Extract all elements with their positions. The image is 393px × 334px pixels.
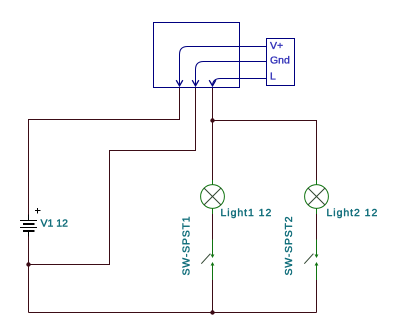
junction node L [210, 118, 214, 122]
svg-text:Light1 12: Light1 12 [221, 207, 273, 219]
connector box (V+/Gnd/L) [267, 39, 295, 86]
wire V+ (navy) [180, 47, 267, 86]
wire L (navy) [213, 79, 267, 86]
switch SW-SPST1 [201, 240, 214, 281]
wire: battery - down to bottom rail [28, 237, 30, 313]
wire: node to lamp1 [212, 121, 214, 181]
svg-text:Gnd: Gnd [270, 54, 290, 66]
svg-text:L: L [270, 71, 276, 83]
wire: lamp1 to switch1 [212, 214, 214, 240]
svg-text:SW-SPST2: SW-SPST2 [283, 216, 295, 276]
wire: switch1 to bottom rail [212, 280, 214, 313]
arrow on L wire [209, 80, 216, 86]
bottom rail wire [29, 312, 317, 314]
module box U1 [154, 23, 240, 88]
svg-text:SW-SPST1: SW-SPST1 [181, 216, 193, 276]
svg-text:V1 12: V1 12 [41, 218, 69, 230]
wire: Gnd pin down/left to battery - [29, 88, 196, 265]
svg-text:V+: V+ [270, 40, 283, 52]
wire: switch2 to bottom rail [316, 280, 318, 313]
lamp Light2 [305, 180, 329, 214]
lamp Light1 [201, 180, 225, 214]
switch SW-SPST2 [304, 240, 318, 281]
svg-text:Light2 12: Light2 12 [327, 207, 379, 219]
wire: node right and down to lamp2 [213, 121, 317, 181]
wire: L pin down to node [212, 88, 214, 121]
battery V1 [20, 208, 41, 237]
wire: lamp2 to switch2 [316, 214, 318, 240]
junction at battery return [26, 262, 30, 266]
arrow on V+ wire [176, 80, 183, 86]
wire Gnd (navy) [196, 62, 267, 86]
arrow on Gnd wire [192, 80, 199, 86]
wire: V+ pin to battery + [29, 88, 180, 215]
junction bottom rail [210, 310, 214, 314]
